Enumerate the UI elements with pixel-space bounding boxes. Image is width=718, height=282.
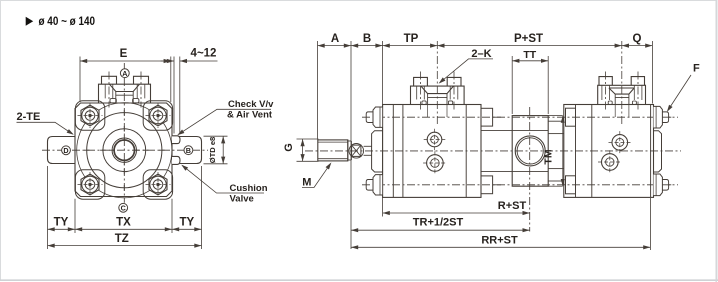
boss tower centerline right front xyxy=(140,72,142,108)
trunnion pin circle inner xyxy=(517,138,543,164)
bolt pad bottom-left xyxy=(75,170,104,199)
tie rod nut cap front bottom xyxy=(566,176,576,194)
trunnion pin D left xyxy=(48,137,76,164)
dim TR+1/2ST line xyxy=(351,229,530,231)
side view main axis centerline xyxy=(305,150,681,152)
front view horizontal centerline xyxy=(42,149,208,151)
dim TZ line xyxy=(48,245,202,247)
port funnel trapezoid head xyxy=(421,86,453,94)
rod end thread lines xyxy=(318,141,348,143)
dim TM line xyxy=(562,116,564,187)
boss foot left head xyxy=(422,101,426,105)
port boss right tower cap xyxy=(631,77,644,86)
check valve boss xyxy=(172,136,180,144)
bolt pad top-right xyxy=(143,101,172,130)
cylinder tube right segment xyxy=(548,133,564,135)
cap block flange line 1 xyxy=(575,105,577,198)
cushion valve plug head xyxy=(427,155,444,172)
boss tower centerlines head xyxy=(420,72,422,111)
port boss base cap xyxy=(598,85,646,104)
svg-text:TT: TT xyxy=(523,49,536,61)
svg-text:G: G xyxy=(283,143,295,152)
dim TT extension lines xyxy=(511,56,513,114)
leader 2-TE xyxy=(17,122,73,134)
svg-text:4~12: 4~12 xyxy=(191,48,217,60)
boss bolt shanks head xyxy=(417,86,458,99)
leader cushion valve xyxy=(183,166,265,193)
boss foot right front xyxy=(133,99,139,103)
tie-rod bolt bottom-right xyxy=(149,174,167,195)
head block flange line 2 xyxy=(402,105,404,198)
cushion valve boss xyxy=(172,156,180,164)
boss foot left front xyxy=(110,99,116,103)
svg-text:TM: TM xyxy=(542,149,554,164)
svg-text:& Air Vent: & Air Vent xyxy=(227,110,273,121)
top dim extension head port centerline xyxy=(436,41,438,124)
boss tower centerline left front xyxy=(108,72,110,108)
svg-text:ØTD e8: ØTD e8 xyxy=(208,137,217,164)
flange circle xyxy=(77,103,172,198)
rod bore circle xyxy=(114,140,134,160)
rod end body xyxy=(318,140,348,161)
port throat cap xyxy=(615,94,629,104)
port hidden lines cap xyxy=(614,105,616,118)
dim RR+ST extension rear xyxy=(649,198,651,250)
rod sphere circle xyxy=(349,144,364,159)
svg-text:TX: TX xyxy=(116,217,131,229)
svg-text:B: B xyxy=(363,33,371,45)
bolt pad bottom-right xyxy=(143,170,172,199)
top dim extension gland face xyxy=(382,41,384,217)
port boss right tower front xyxy=(134,76,149,84)
dim E line xyxy=(80,60,171,62)
boss tower centerlines cap xyxy=(605,72,607,111)
bolt pad top-left xyxy=(75,101,104,130)
trunnion centerline vertical xyxy=(529,107,531,232)
port boss left tower front xyxy=(102,76,117,84)
leader M xyxy=(302,164,330,188)
dim TM extension lines xyxy=(548,115,562,117)
svg-text:D: D xyxy=(63,146,68,155)
svg-text:TR+1/2ST: TR+1/2ST xyxy=(413,216,464,228)
tie rod nut cap rear top xyxy=(662,112,668,123)
leader 2-K xyxy=(440,59,493,83)
port boss base head xyxy=(411,86,465,104)
port funnel trapezoid cap xyxy=(609,88,634,94)
leader check valve xyxy=(179,109,272,134)
tie rod nut head rear top xyxy=(481,108,493,126)
dim R+ST line xyxy=(383,212,530,214)
collar lines right gap xyxy=(548,120,564,122)
gland circle xyxy=(103,129,146,172)
dim TY TX line xyxy=(48,228,202,230)
port boss base front xyxy=(99,84,151,103)
svg-text:Check V/v: Check V/v xyxy=(228,99,274,110)
port throat head xyxy=(428,94,447,105)
trunnion tube lines xyxy=(512,130,548,132)
top dim chain line xyxy=(318,45,653,47)
port boss left tower head xyxy=(414,77,428,86)
cap block inner line xyxy=(591,105,593,198)
top dim extension rear face xyxy=(651,41,653,104)
dim TT line xyxy=(512,60,548,62)
svg-text:F: F xyxy=(693,63,700,75)
svg-text:P+ST: P+ST xyxy=(514,33,543,45)
svg-text:ø 40 ~ ø 140: ø 40 ~ ø 140 xyxy=(39,14,96,28)
trunnion block xyxy=(512,116,548,187)
wrench flats box xyxy=(352,145,361,156)
port throat front xyxy=(116,92,133,103)
tie-rod bolt top-left xyxy=(81,105,99,126)
boss foot right head xyxy=(448,101,452,105)
check valve plug cap xyxy=(612,135,628,151)
svg-text:M: M xyxy=(302,176,311,188)
trunnion pin B right xyxy=(172,137,202,164)
check valve plug head xyxy=(427,132,442,147)
svg-text:B: B xyxy=(186,146,191,155)
cushion valve plug cap xyxy=(602,154,619,171)
dim 4~12 extension lines xyxy=(173,57,175,134)
svg-text:TZ: TZ xyxy=(115,233,129,245)
leader F xyxy=(668,75,691,111)
datum A balloon xyxy=(120,69,129,78)
tie-rod bolt bottom-left xyxy=(81,174,99,195)
svg-text:TY: TY xyxy=(54,217,69,229)
dim RR+ST line xyxy=(351,246,650,248)
port boss left tower cap xyxy=(599,77,612,86)
svg-text:Valve: Valve xyxy=(230,194,254,205)
tie rod nut head front bottom xyxy=(366,180,373,191)
svg-text:C: C xyxy=(121,203,126,212)
tie rod centerline bottom xyxy=(362,184,678,186)
port hidden lines head xyxy=(427,105,429,118)
svg-text:2-TE: 2-TE xyxy=(17,111,41,123)
dim E extension lines xyxy=(79,57,81,103)
svg-text:E: E xyxy=(120,48,128,60)
svg-text:A: A xyxy=(122,69,127,78)
dim TD extension lines xyxy=(204,135,228,137)
top dim extension cap port centerline xyxy=(621,41,623,124)
svg-text:Cushion: Cushion xyxy=(230,183,268,194)
bushing outer circle xyxy=(112,138,136,162)
svg-text:RR+ST: RR+ST xyxy=(481,234,518,246)
head block flange line 1 xyxy=(392,105,394,198)
datum D balloon xyxy=(62,146,71,155)
tie rod nut head rear bottom xyxy=(481,176,493,194)
svg-text:R+ST: R+ST xyxy=(498,200,527,212)
svg-text:Q: Q xyxy=(633,33,642,45)
top dim extension rod face xyxy=(317,41,319,140)
circle quadrant ticks xyxy=(84,149,90,151)
tie rod nut head front top xyxy=(366,112,373,123)
rod relief groove xyxy=(348,140,352,142)
cap block outline xyxy=(564,105,654,198)
boss bolt shanks cap xyxy=(602,85,642,100)
dim G extension lines xyxy=(297,138,319,140)
boss foot right cap xyxy=(632,101,636,105)
front view vertical centerline xyxy=(123,63,125,203)
tube circle xyxy=(87,113,162,188)
cylinder body front square xyxy=(75,103,172,197)
datum B balloon xyxy=(184,146,193,155)
tie rod nut cap front top xyxy=(566,108,576,126)
trunnion pin circle outer xyxy=(515,136,545,166)
wrench flats diagonals xyxy=(352,145,361,156)
header arrow marker xyxy=(26,17,34,26)
cylinder tube left segment xyxy=(481,130,512,132)
tie rod nut cap rear bottom xyxy=(662,180,668,191)
dim 4~12 line xyxy=(161,60,175,62)
cap block rear flange line xyxy=(650,105,652,198)
datum C balloon xyxy=(119,203,128,212)
head block outline xyxy=(383,105,481,198)
boss bolt shanks front xyxy=(105,84,145,98)
top dim extension wrench flats xyxy=(350,41,352,249)
boss foot left cap xyxy=(608,101,612,105)
port boss right tower head xyxy=(447,77,461,86)
port funnel trapezoid front xyxy=(110,84,140,91)
head block rear flange line xyxy=(465,105,467,198)
cap rear pilot xyxy=(654,131,662,172)
dim TD line xyxy=(222,136,224,164)
tie rod centerline top xyxy=(362,116,678,118)
svg-text:2–K: 2–K xyxy=(471,48,491,60)
tie-rod bolt top-right xyxy=(149,105,167,126)
piston rod xyxy=(364,145,372,147)
dim G line xyxy=(302,139,304,161)
dim TY TX extension lines xyxy=(47,166,49,249)
svg-text:TY: TY xyxy=(179,217,194,229)
svg-text:A: A xyxy=(331,33,339,45)
svg-text:TP: TP xyxy=(404,33,419,45)
gland pilot xyxy=(372,131,383,172)
